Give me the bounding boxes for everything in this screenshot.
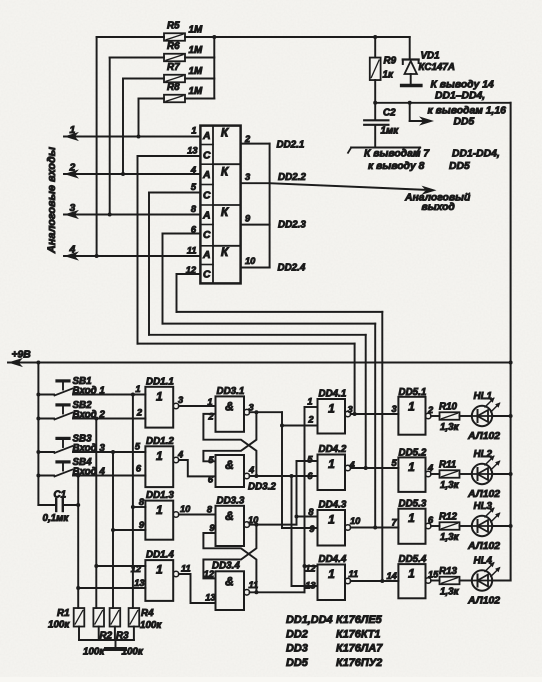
svg-text:К176ПУ2: К176ПУ2	[336, 657, 382, 669]
svg-text:12: 12	[204, 569, 215, 579]
svg-text:DD2.3: DD2.3	[278, 220, 306, 231]
svg-text:DD4.1: DD4.1	[319, 389, 347, 400]
svg-text:6: 6	[208, 475, 214, 485]
svg-text:1: 1	[70, 125, 76, 136]
svg-text:1: 1	[156, 563, 163, 577]
svg-text:DD3.4: DD3.4	[212, 561, 240, 572]
svg-text:А: А	[202, 131, 210, 142]
svg-text:АЛ102: АЛ102	[467, 541, 500, 552]
svg-text:С: С	[203, 151, 211, 162]
svg-text:К176ЛЕ5: К176ЛЕ5	[336, 614, 383, 626]
svg-text:+9В: +9В	[12, 350, 32, 361]
svg-text:VD1: VD1	[421, 51, 440, 62]
svg-text:HL1: HL1	[474, 391, 493, 402]
svg-text:DD4.2: DD4.2	[319, 444, 347, 455]
svg-text:2: 2	[244, 134, 251, 144]
svg-text:R2: R2	[100, 631, 113, 642]
svg-text:DD5: DD5	[286, 657, 309, 669]
svg-text:9: 9	[209, 523, 215, 533]
svg-text:DD3: DD3	[286, 643, 308, 655]
svg-text:2: 2	[207, 412, 214, 422]
svg-text:13: 13	[187, 146, 198, 156]
svg-text:DD5.1: DD5.1	[399, 387, 427, 398]
svg-text:К выводам 7: К выводам 7	[364, 149, 430, 160]
svg-text:10: 10	[248, 515, 259, 525]
svg-text:DD5.3: DD5.3	[399, 499, 427, 510]
svg-text:DD5: DD5	[449, 161, 470, 172]
svg-text:5: 5	[307, 455, 313, 465]
svg-text:R13: R13	[439, 566, 458, 577]
svg-text:5: 5	[208, 455, 214, 465]
svg-text:DD3.2: DD3.2	[248, 482, 276, 493]
svg-text:1: 1	[135, 384, 140, 394]
svg-text:4: 4	[190, 165, 196, 175]
svg-text:R7: R7	[167, 62, 180, 73]
svg-text:11: 11	[181, 564, 191, 574]
svg-text:3: 3	[392, 404, 398, 414]
svg-text:9: 9	[309, 524, 315, 534]
svg-text:2: 2	[307, 415, 314, 425]
svg-text:DD4.3: DD4.3	[319, 500, 347, 511]
svg-text:12: 12	[305, 564, 316, 574]
svg-text:100к: 100к	[140, 620, 162, 631]
svg-text:1к: 1к	[383, 70, 394, 81]
svg-text:DD3.1: DD3.1	[217, 386, 245, 397]
svg-text:3: 3	[70, 203, 76, 214]
svg-text:DD5: DD5	[454, 117, 475, 128]
svg-text:С: С	[203, 230, 211, 241]
svg-text:1: 1	[328, 567, 335, 581]
svg-text:8: 8	[191, 204, 197, 214]
svg-text:к выводу 8: к выводу 8	[368, 161, 425, 172]
svg-text:1: 1	[207, 397, 212, 407]
svg-text:3: 3	[178, 395, 184, 405]
svg-text:10: 10	[350, 516, 361, 526]
svg-text:HL4: HL4	[474, 556, 493, 567]
svg-text:С1: С1	[54, 490, 67, 501]
svg-text:3: 3	[348, 405, 354, 415]
svg-text:100к: 100к	[122, 647, 144, 658]
svg-text:R1: R1	[57, 608, 70, 619]
svg-text:4: 4	[427, 463, 433, 473]
svg-text:К выводу 14: К выводу 14	[431, 80, 494, 91]
svg-text:DD3.3: DD3.3	[217, 496, 245, 507]
svg-text:&: &	[225, 574, 234, 588]
svg-text:А: А	[202, 170, 210, 181]
svg-text:11: 11	[349, 569, 359, 579]
svg-text:к выводам 1,16: к выводам 1,16	[428, 106, 507, 117]
svg-text:R6: R6	[167, 41, 180, 52]
svg-text:АЛ102: АЛ102	[467, 489, 500, 500]
svg-text:0,1мк: 0,1мк	[43, 513, 70, 524]
svg-text:1: 1	[156, 449, 163, 463]
svg-text:DD1–DD4,: DD1–DD4,	[435, 91, 485, 102]
svg-text:1: 1	[408, 399, 415, 413]
svg-text:14: 14	[387, 571, 397, 581]
svg-text:1: 1	[191, 126, 196, 136]
svg-text:2: 2	[136, 408, 143, 418]
svg-text:1,3к: 1,3к	[440, 532, 460, 543]
svg-text:1М: 1М	[189, 25, 203, 36]
svg-text:11: 11	[249, 580, 259, 590]
svg-text:DD1,DD4: DD1,DD4	[286, 614, 333, 626]
svg-text:7: 7	[392, 518, 398, 528]
svg-text:10: 10	[245, 256, 256, 266]
svg-text:DD2.4: DD2.4	[278, 263, 306, 274]
svg-text:1: 1	[408, 460, 415, 474]
svg-text:4: 4	[177, 450, 183, 460]
svg-text:АЛ102: АЛ102	[467, 431, 500, 442]
svg-text:DD2: DD2	[286, 629, 308, 641]
svg-text:DD1-DD4,: DD1-DD4,	[452, 149, 500, 160]
svg-text:Вход 3: Вход 3	[73, 443, 106, 454]
svg-text:13: 13	[205, 593, 216, 603]
svg-text:9: 9	[245, 214, 251, 224]
svg-text:DD1.2: DD1.2	[146, 436, 174, 447]
svg-text:2: 2	[427, 405, 434, 415]
svg-text:DD5.4: DD5.4	[399, 554, 427, 565]
svg-text:DD4.4: DD4.4	[319, 554, 347, 565]
svg-text:1М: 1М	[189, 86, 203, 97]
svg-text:R12: R12	[439, 512, 458, 523]
svg-text:4: 4	[69, 245, 76, 256]
svg-text:1мк: 1мк	[381, 126, 400, 137]
svg-text:К176КТ1: К176КТ1	[336, 629, 380, 641]
svg-text:R3: R3	[116, 631, 129, 642]
svg-text:1: 1	[408, 511, 415, 525]
svg-text:8: 8	[207, 505, 213, 515]
svg-text:DD2.2: DD2.2	[278, 172, 306, 183]
svg-text:8: 8	[139, 497, 145, 507]
svg-text:R5: R5	[167, 21, 180, 32]
svg-text:1М: 1М	[189, 66, 203, 77]
svg-text:6: 6	[428, 515, 434, 525]
svg-text:11: 11	[187, 246, 197, 256]
svg-text:DD1.1: DD1.1	[146, 376, 174, 387]
svg-text:1: 1	[408, 567, 415, 581]
svg-text:100к: 100к	[83, 647, 105, 658]
svg-text:12: 12	[131, 564, 142, 574]
svg-text:100к: 100к	[48, 620, 70, 631]
svg-text:8: 8	[308, 507, 314, 517]
svg-text:КС147А: КС147А	[419, 62, 455, 73]
svg-text:3: 3	[249, 403, 255, 413]
svg-text:С: С	[203, 191, 211, 202]
svg-text:1,3к: 1,3к	[440, 480, 460, 491]
svg-text:1: 1	[328, 513, 335, 527]
svg-text:выход: выход	[422, 202, 456, 213]
svg-text:1М: 1М	[189, 45, 203, 56]
svg-text:АЛ102: АЛ102	[467, 596, 500, 607]
svg-text:3: 3	[245, 172, 251, 182]
svg-text:R11: R11	[439, 460, 456, 471]
svg-text:2: 2	[69, 163, 76, 174]
svg-text:5: 5	[392, 458, 398, 468]
svg-text:R10: R10	[439, 402, 458, 413]
svg-text:DD2.1: DD2.1	[277, 140, 305, 151]
svg-text:1: 1	[307, 397, 312, 407]
svg-text:А: А	[202, 250, 210, 261]
svg-text:R9: R9	[384, 56, 397, 67]
svg-text:10: 10	[180, 504, 191, 514]
svg-text:DD1.3: DD1.3	[146, 490, 174, 501]
svg-text:HL2: HL2	[474, 449, 493, 460]
svg-text:1: 1	[328, 402, 335, 416]
svg-text:1,3к: 1,3к	[440, 422, 460, 433]
svg-text:Аналоговые входы: Аналоговые входы	[46, 146, 58, 254]
svg-text:4: 4	[248, 465, 254, 475]
svg-text:DD1.4: DD1.4	[146, 550, 174, 561]
svg-text:А: А	[202, 211, 210, 222]
svg-text:1: 1	[156, 389, 163, 403]
svg-text:&: &	[225, 509, 234, 523]
svg-text:R8: R8	[167, 82, 180, 93]
svg-text:15: 15	[428, 570, 439, 580]
svg-text:5: 5	[191, 182, 197, 192]
svg-text:&: &	[225, 458, 234, 472]
svg-text:С2: С2	[383, 108, 396, 119]
svg-text:13: 13	[305, 581, 316, 591]
svg-text:HL3: HL3	[474, 501, 493, 512]
svg-text:1,3к: 1,3к	[440, 587, 460, 598]
svg-text:К176ЛА7: К176ЛА7	[336, 643, 383, 655]
svg-text:6: 6	[136, 464, 142, 474]
svg-text:Вход 2: Вход 2	[73, 410, 106, 421]
svg-text:R4: R4	[141, 608, 154, 619]
svg-text:13: 13	[134, 578, 145, 588]
svg-text:9: 9	[139, 520, 145, 530]
svg-text:6: 6	[307, 471, 313, 481]
svg-text:1: 1	[328, 457, 335, 471]
svg-text:5: 5	[135, 442, 141, 452]
svg-text:DD5.2: DD5.2	[399, 447, 427, 458]
svg-text:Вход 1: Вход 1	[73, 386, 105, 397]
svg-text:&: &	[225, 399, 234, 413]
svg-text:1: 1	[156, 503, 163, 517]
svg-text:С: С	[203, 270, 211, 281]
